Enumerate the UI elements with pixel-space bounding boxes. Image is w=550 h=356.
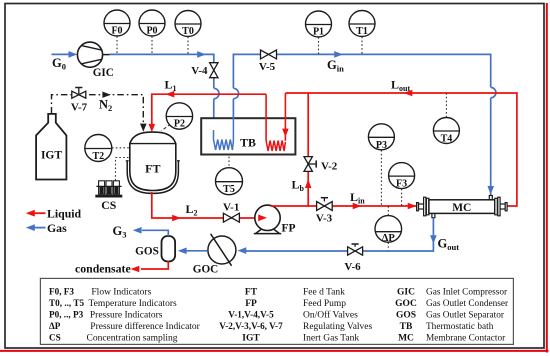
pipe down to MC top port (blue) <box>487 98 494 196</box>
svg-text:Pressure difference Indicator: Pressure difference Indicator <box>90 321 200 332</box>
svg-text:GOC: GOC <box>193 263 218 275</box>
pipe main gas line (blue) <box>110 51 214 88</box>
pipe Lin (red) <box>270 203 416 210</box>
svg-text:V-2: V-2 <box>321 160 338 172</box>
svg-text:P0: P0 <box>146 26 157 37</box>
pipe Lb bypass (red) <box>305 93 312 206</box>
svg-text:V-2,V-3,V-6, V-7: V-2,V-3,V-6, V-7 <box>219 321 283 331</box>
svg-text:T0, .., T5: T0, .., T5 <box>49 298 84 308</box>
svg-text:T0: T0 <box>182 26 194 37</box>
svg-text:Gas Outlet Condenser: Gas Outlet Condenser <box>426 299 509 309</box>
feed pump FP <box>254 205 296 234</box>
pipe L2 (red) <box>152 192 259 221</box>
svg-text:TB: TB <box>240 135 256 149</box>
svg-text:GOS: GOS <box>396 311 416 321</box>
svg-text:V-3: V-3 <box>316 212 333 224</box>
pipe G_out (blue) <box>363 218 437 251</box>
svg-text:GOS: GOS <box>135 246 159 258</box>
svg-text:Liquid: Liquid <box>47 206 82 220</box>
membrane contactor MC <box>417 196 508 218</box>
pipe Lout (red) <box>285 90 517 206</box>
pipe Lout down into TB (red) <box>282 93 289 141</box>
svg-text:GIC: GIC <box>397 287 415 297</box>
indicator P2 <box>162 103 193 131</box>
svg-text:P2: P2 <box>174 119 185 130</box>
svg-text:T4: T4 <box>441 134 453 145</box>
valve V-5 <box>259 50 277 73</box>
svg-text:F0: F0 <box>111 26 122 37</box>
svg-text:CS: CS <box>49 333 61 343</box>
svg-text:T5: T5 <box>223 184 235 195</box>
svg-text:T2: T2 <box>92 151 104 162</box>
indicator T1 <box>349 11 375 55</box>
svg-text:P3: P3 <box>376 140 387 151</box>
svg-text:ΔP: ΔP <box>382 233 396 244</box>
svg-text:V-6: V-6 <box>344 261 361 273</box>
valve V-1 <box>223 202 239 223</box>
gas outlet condenser GOC <box>193 234 236 275</box>
valve V-7 <box>71 88 88 114</box>
svg-text:FP: FP <box>281 223 295 235</box>
svg-text:Gas: Gas <box>47 221 67 235</box>
indicator T5 <box>216 157 243 196</box>
svg-text:Thermostatic bath: Thermostatic bath <box>426 322 494 332</box>
indicator P3 <box>368 124 394 206</box>
svg-text:Feed Pump: Feed Pump <box>303 299 346 309</box>
indicator P0 <box>139 10 165 54</box>
valve V-4 <box>191 63 218 78</box>
svg-text:F0, F3: F0, F3 <box>49 286 74 296</box>
pipe L1 (red) <box>149 91 267 132</box>
indicator dP <box>375 206 402 251</box>
pipe N2 dash-dot line <box>52 92 147 132</box>
valve V-6 <box>246 244 363 273</box>
pipe condensate (red) <box>131 262 169 273</box>
TB blue coil <box>214 118 234 150</box>
svg-text:FT: FT <box>245 287 258 297</box>
svg-text:T1: T1 <box>356 26 368 37</box>
svg-text:MC: MC <box>452 202 471 214</box>
pipe L1 down into TB coil (red) <box>265 94 267 140</box>
indicator P1 <box>306 11 332 54</box>
svg-text:Fee d Tank: Fee d Tank <box>303 287 345 297</box>
pipe G_in line (blue) <box>277 51 491 87</box>
svg-text:P0, .., P3: P0, .., P3 <box>49 310 84 320</box>
svg-text:Pressure Indicators: Pressure Indicators <box>90 311 163 321</box>
svg-text:Regulating Valves: Regulating Valves <box>303 322 373 332</box>
TB red coil <box>266 141 285 152</box>
inert gas tank IGT <box>36 114 66 180</box>
svg-text:GOC: GOC <box>395 299 417 309</box>
svg-text:V-4: V-4 <box>191 65 208 77</box>
gas outlet separator GOS <box>135 236 175 262</box>
svg-text:FT: FT <box>145 162 160 176</box>
svg-text:Temperature Indicators: Temperature Indicators <box>89 299 178 309</box>
feed tank FT vessel <box>130 132 176 190</box>
indicator F3 <box>389 163 415 206</box>
svg-text:V-5: V-5 <box>259 61 276 73</box>
indicator T4 <box>433 93 459 145</box>
svg-text:Gas Outlet Separator: Gas Outlet Separator <box>426 311 505 321</box>
svg-text:Gas Inlet Compressor: Gas Inlet Compressor <box>426 287 508 297</box>
svg-text:IGT: IGT <box>242 334 260 344</box>
pipe to V-5 (blue) <box>233 54 260 88</box>
svg-text:On/Off Valves: On/Off Valves <box>303 310 358 321</box>
svg-text:GIC: GIC <box>93 67 114 79</box>
wire hop blue over L1 (left) <box>214 88 219 98</box>
svg-text:FP: FP <box>245 299 257 309</box>
pipe G3 (blue) <box>133 227 169 236</box>
legend arrow Gas <box>26 221 67 235</box>
pipe GOC to GOS (blue) <box>178 248 208 255</box>
svg-text:MC: MC <box>398 334 414 344</box>
svg-text:TB: TB <box>400 322 413 332</box>
pipe into TB coil (blue) <box>210 99 217 138</box>
svg-text:F3: F3 <box>396 179 407 190</box>
svg-text:condensate: condensate <box>75 262 131 276</box>
svg-text:CS: CS <box>101 198 117 212</box>
svg-text:Flow Indicators: Flow Indicators <box>91 287 151 297</box>
pipe G0 inlet (blue) <box>52 51 78 58</box>
svg-text:P1: P1 <box>313 27 324 38</box>
svg-text:Inert Gas Tank: Inert Gas Tank <box>303 334 359 344</box>
svg-text:V-7: V-7 <box>71 102 88 114</box>
valve V-2 <box>304 157 338 173</box>
compressor GIC <box>77 42 113 79</box>
indicator T2 <box>85 135 130 163</box>
indicator T0 <box>175 11 201 55</box>
svg-text:Concentration sampling: Concentration sampling <box>87 334 178 344</box>
arrow into GOC (blue) <box>238 247 247 254</box>
svg-text:V-1: V-1 <box>223 202 239 214</box>
svg-text:V-1,V-4,V-5: V-1,V-4,V-5 <box>228 310 274 320</box>
feed tank FT jacket <box>126 161 180 194</box>
pipe TB coil return up (blue) <box>232 99 234 119</box>
concentration sampling CS <box>95 158 130 213</box>
indicator F0 <box>104 10 130 54</box>
red border line bottom <box>0 350 549 352</box>
wire hop blue over L1 (right) <box>233 88 238 98</box>
wire hop blue over Lout <box>491 87 496 97</box>
thermostatic bath TB box <box>201 118 295 154</box>
legend arrow Liquid <box>26 206 82 220</box>
svg-text:IGT: IGT <box>41 150 62 162</box>
svg-text:Membrane Contactor: Membrane Contactor <box>426 334 506 344</box>
legend box <box>40 278 513 344</box>
red border line right <box>546 3 548 353</box>
valve V-3 <box>316 198 333 225</box>
svg-text:ΔP: ΔP <box>49 321 61 331</box>
